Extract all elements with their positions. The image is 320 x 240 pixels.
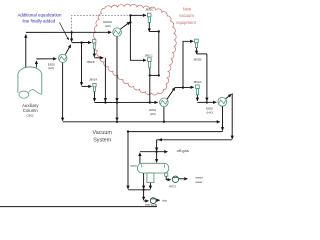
svg-text:New: New xyxy=(183,7,192,12)
wire: line A condensate header xyxy=(63,121,220,123)
wire: J801C feed dropper xyxy=(130,15,146,60)
node: drum outlet junction xyxy=(142,189,144,191)
svg-text:(HX): (HX) xyxy=(150,112,156,116)
svg-text:off-gas: off-gas xyxy=(177,148,189,153)
wire: P871 discharge to slop xyxy=(156,199,160,201)
ejector J801C xyxy=(148,58,152,68)
node: J802B riser tee xyxy=(182,86,184,88)
annotation text: Additional equalization line finally added xyxy=(18,12,62,23)
wire: E801 discharge diagonal xyxy=(167,88,175,100)
node: J801B discharge on collect line xyxy=(104,101,106,103)
revision cloud (new vacuum equipment) xyxy=(93,4,176,95)
label: waste water xyxy=(195,175,203,183)
wire: E820A bottom outlet xyxy=(116,37,118,102)
wire: drum feed line bottom xyxy=(128,189,150,191)
wire: J801C discharge down xyxy=(149,68,151,76)
wire: E820 feed line xyxy=(36,58,56,60)
node: E820A outlet on collect line xyxy=(116,101,118,103)
svg-text:P872: P872 xyxy=(169,184,176,188)
wire: bottom slop line xyxy=(0,206,157,208)
wire: E801 discharge header to J802A xyxy=(175,86,194,88)
wire: drum vapor stub xyxy=(139,153,141,163)
wire: off-gas stub from line C xyxy=(156,140,158,151)
wire: drum top inlet stub xyxy=(156,152,158,163)
label: Vacuum System xyxy=(93,130,113,143)
svg-text:Column: Column xyxy=(23,108,39,113)
label: Auxiliary Column C802 xyxy=(22,103,39,117)
label: E802 (HX) xyxy=(206,107,213,115)
node: J802C discharge corner junction xyxy=(158,30,160,32)
svg-text:System: System xyxy=(93,138,111,144)
svg-text:P871A/B: P871A/B xyxy=(145,203,156,207)
wire: line B condensate to drum xyxy=(128,132,223,189)
wire: off-gas line xyxy=(140,151,168,153)
node: equalization tee on overhead line xyxy=(70,31,72,33)
wire: J801B discharge down xyxy=(93,49,95,57)
wire: P872 suction from drum nozzle xyxy=(166,176,170,180)
node: J801A feed tee xyxy=(80,41,82,43)
wire: ejector feed header J801B xyxy=(72,42,92,44)
wire: J801B downcomer xyxy=(104,58,106,102)
node: line B corner to drum xyxy=(127,130,129,132)
wire: J801A discharge down xyxy=(94,91,96,101)
condenser E820 xyxy=(59,54,67,62)
wire: combined dropper to E801 feed line xyxy=(149,75,151,102)
drum internals xyxy=(142,164,165,168)
wire: J802B downcomer xyxy=(206,54,208,101)
wire: J802B discharge elbow right xyxy=(197,53,207,55)
ejector J802A xyxy=(196,85,200,95)
ejector J802B xyxy=(195,39,199,47)
drum boot xyxy=(147,173,154,183)
svg-text:(HX): (HX) xyxy=(207,111,213,115)
svg-text:J802B: J802B xyxy=(193,57,201,61)
wire: J802C downcomer xyxy=(158,32,160,76)
pump P871A/B xyxy=(150,198,156,204)
wire: E802 discharge diagonal xyxy=(226,94,232,99)
auxiliary column C802 xyxy=(18,67,42,98)
svg-text:line finally added: line finally added xyxy=(23,18,56,23)
dashed equalization line (blue) xyxy=(72,15,131,31)
annotation arrow xyxy=(60,23,69,40)
svg-text:J801C: J801C xyxy=(144,53,152,57)
svg-text:V870: V870 xyxy=(130,164,137,168)
annotation text: New vacuum equipment xyxy=(176,7,196,26)
label: E820 (HX) xyxy=(48,62,55,70)
wire: line C vapor to off-gas xyxy=(159,139,232,141)
node: ejector header on collect line xyxy=(149,101,151,103)
wire: column riser 1 xyxy=(25,35,27,68)
pump P872 xyxy=(172,176,178,182)
svg-text:waste: waste xyxy=(195,175,203,179)
wire: top overhead line to E820A xyxy=(26,31,111,33)
condenser E802 xyxy=(218,97,227,106)
node: J802C downcomer junction xyxy=(158,74,160,76)
svg-text:(HX): (HX) xyxy=(48,66,54,70)
wire: condensate collect line to E801 xyxy=(95,101,158,103)
svg-text:water: water xyxy=(195,180,202,184)
label: E801 (HX) xyxy=(149,108,156,116)
svg-text:vacuum: vacuum xyxy=(179,13,194,18)
wire: J802C feed xyxy=(130,14,146,16)
node: E801 outlet on line A xyxy=(163,121,165,123)
wire: E802 vapor downcomer xyxy=(231,93,233,139)
svg-text:J802C: J802C xyxy=(145,8,153,12)
wire: P872 discharge to waste water xyxy=(179,178,188,180)
wire: E820A discharge diagonal xyxy=(120,22,130,29)
node: equalization / E820A riser junction xyxy=(129,14,131,16)
wire: J801B discharge right xyxy=(94,57,103,59)
wire: P871 suction elbow xyxy=(144,200,149,202)
node: off-gas line junction xyxy=(155,151,157,153)
wire: J802 combined feed to E802 xyxy=(197,101,216,103)
wire: E820 bottom outlet downcomer xyxy=(62,63,64,121)
wire: drum bottom left nozzle xyxy=(143,173,145,189)
wires (black) xyxy=(0,15,232,206)
ejector J801A xyxy=(93,83,96,91)
svg-text:Additional equalization: Additional equalization xyxy=(18,12,62,17)
svg-text:J802A: J802A xyxy=(193,80,201,84)
wire: boot outlet xyxy=(149,183,151,189)
svg-text:Vacuum: Vacuum xyxy=(93,130,113,136)
svg-text:C802: C802 xyxy=(27,114,34,118)
wire: E801 bottom outlet xyxy=(163,107,165,122)
wire: J802C discharge right xyxy=(149,31,159,33)
node: collect line drop on line A xyxy=(116,121,118,123)
ejector J802C xyxy=(147,13,151,22)
node: J801C discharge junction xyxy=(149,74,151,76)
wire: J801A feed xyxy=(82,85,92,87)
wire: J802A discharge down xyxy=(196,95,198,101)
wire: E820 discharge diagonal xyxy=(65,45,70,55)
wire: J801C J802C connector xyxy=(150,74,159,76)
wire: J801A dropper xyxy=(81,43,83,86)
node: E820A discharge tee xyxy=(129,21,131,23)
wire: E820 feed riser from dome xyxy=(35,61,37,68)
wire: J802C discharge down xyxy=(148,22,150,31)
condenser E801 xyxy=(160,98,169,107)
node: J802B discharge on E802 feed xyxy=(206,101,208,103)
wire: P871 suction xyxy=(143,190,145,200)
condenser E820A xyxy=(113,28,122,37)
wire: equalization drop below top line xyxy=(71,32,73,41)
drum right bottom nozzle xyxy=(165,173,168,176)
svg-text:(HX): (HX) xyxy=(105,24,111,28)
wire: E820A drop to line A xyxy=(116,103,118,121)
vacuum drum V870 xyxy=(137,163,168,173)
wire: J802B discharge down xyxy=(196,48,198,54)
svg-text:slop: slop xyxy=(162,198,167,202)
wire: E802 bottom outlet to line B corner xyxy=(222,106,224,130)
svg-text:equipment: equipment xyxy=(176,20,196,25)
svg-text:J801B: J801B xyxy=(86,60,94,64)
svg-text:J801A: J801A xyxy=(89,77,97,81)
label: E820A (HX) xyxy=(103,20,112,28)
ejector J801B xyxy=(93,40,96,49)
wire: E820A riser to equalization junction xyxy=(129,15,131,22)
wire: J802B riser xyxy=(183,41,193,87)
